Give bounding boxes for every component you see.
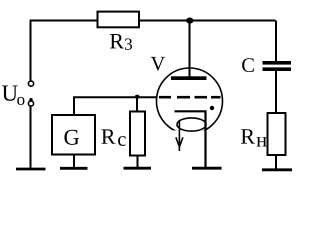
tube V cathode: [175, 111, 206, 168]
tube V anode plate: [171, 76, 207, 80]
ground RH: [262, 168, 292, 171]
label RC: [101, 129, 115, 143]
ground G: [60, 167, 88, 170]
ground left: [16, 168, 46, 171]
resistor RC: [130, 112, 145, 156]
wire grid bus: [74, 97, 158, 115]
tube V heater ellipse: [177, 118, 206, 131]
generator G: [52, 115, 95, 155]
node grid junction: [135, 95, 140, 99]
label RH: [241, 129, 255, 143]
label R3: [110, 34, 124, 48]
cathode current arrow: [176, 120, 183, 151]
wire left vertical: [30, 20, 32, 83]
wire top bus: [30, 20, 276, 22]
gas-filled indicator dot: [210, 106, 214, 110]
terminal U0 lower: [28, 101, 33, 106]
wire C to RH: [275, 71, 277, 113]
wire RH ground lead: [275, 155, 277, 170]
node terminal dot: [29, 98, 32, 101]
tube V envelope: [157, 68, 223, 134]
label G: [64, 130, 79, 145]
resistor R3: [98, 12, 140, 28]
wire lower left: [30, 106, 32, 169]
wire RC ground lead: [137, 156, 139, 169]
wire G ground lead: [73, 155, 75, 169]
terminal U0 upper: [28, 81, 33, 86]
ground cathode: [192, 167, 222, 170]
resistor RH: [268, 113, 286, 155]
wire right vertical upper: [275, 21, 277, 62]
capacitor C: [263, 61, 292, 71]
tube V grid: [159, 96, 221, 99]
label C: [242, 58, 254, 72]
ground RC: [124, 167, 152, 170]
label U0: [2, 86, 18, 101]
node anode junction: [186, 18, 193, 24]
label V: [151, 57, 165, 71]
wire RC lead: [136, 97, 138, 111]
wire anode lead: [189, 21, 191, 77]
